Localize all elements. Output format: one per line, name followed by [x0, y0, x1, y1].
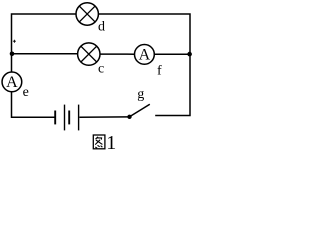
svg-text:e: e: [23, 85, 29, 100]
node: right junction: [187, 52, 192, 57]
wire: middle branch between lamp c and ammeter f: [100, 53, 135, 55]
svg-text:A: A: [139, 47, 151, 64]
ammeter f: [135, 45, 155, 65]
svg-text:A: A: [6, 74, 18, 91]
lamp d: [76, 3, 98, 25]
lamp c: [78, 43, 100, 65]
wire: top wire right + right wire + switch right contact stub: [98, 14, 190, 116]
svg-text:1: 1: [106, 132, 116, 154]
polarity plus mark: [13, 40, 16, 43]
switch g: blade: [130, 104, 150, 117]
wire: battery to switch pivot: [79, 116, 129, 118]
wire: top-left corner run (left wire upper + top wire to lamp d): [12, 14, 77, 72]
caption: 图 glyph (drawn): [93, 135, 105, 149]
wire: middle branch ammeter f to right junction: [154, 53, 190, 55]
svg-text:g: g: [137, 87, 144, 102]
switch g: pivot dot: [127, 115, 131, 119]
wire: left wire lower + bottom wire to battery: [12, 92, 55, 118]
ammeter e: [2, 72, 22, 92]
wire: middle branch left segment (junction to lamp c): [12, 53, 78, 55]
svg-text:d: d: [98, 19, 105, 34]
svg-text:f: f: [157, 63, 162, 78]
node: left junction: [10, 52, 15, 57]
svg-text:c: c: [98, 62, 104, 77]
battery B1: [55, 105, 78, 131]
